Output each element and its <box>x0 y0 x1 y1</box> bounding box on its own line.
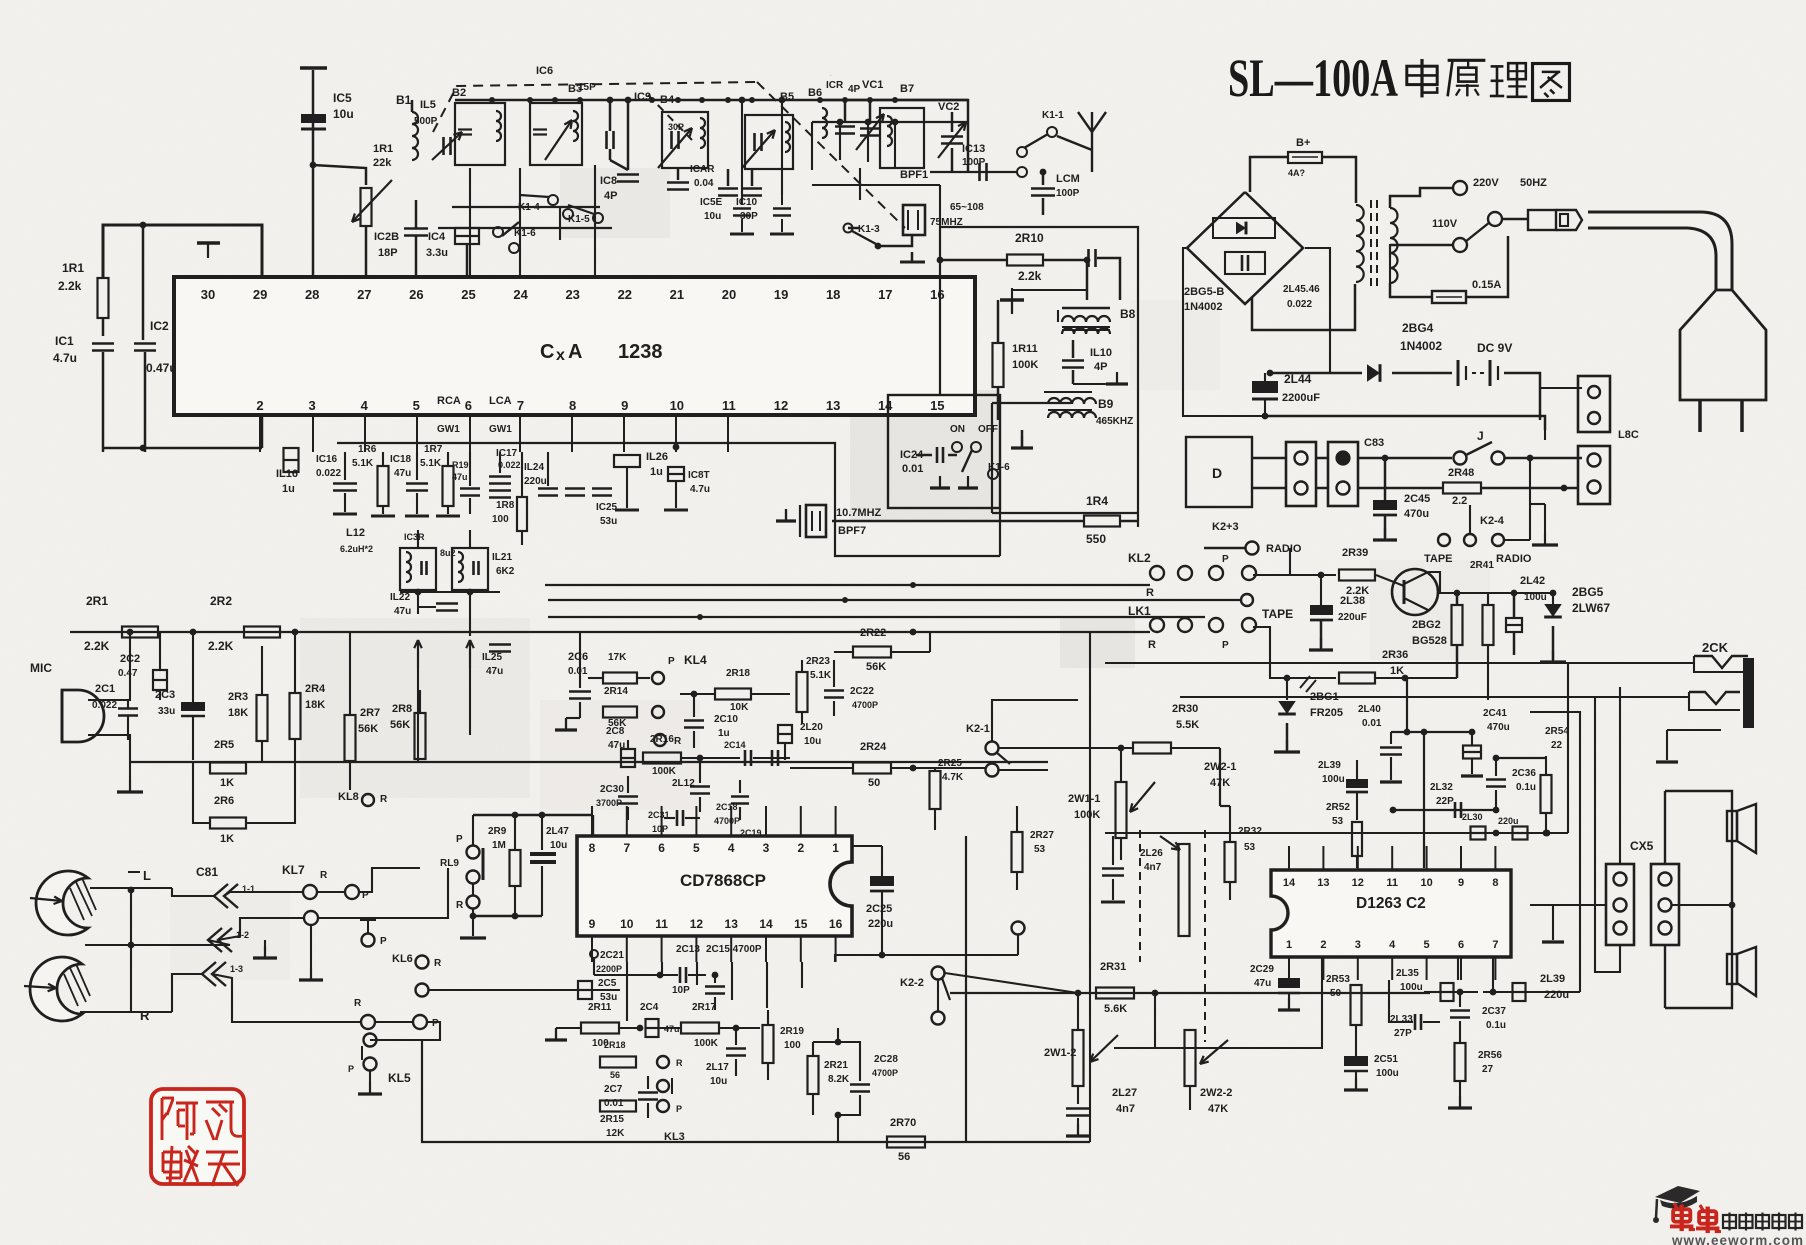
resistor 2R37 1K <box>1253 627 1336 678</box>
svg-text:R: R <box>320 870 328 881</box>
svg-text:L12: L12 <box>346 527 365 539</box>
svg-text:2C6: 2C6 <box>568 651 588 663</box>
scan blotch <box>170 890 290 980</box>
svg-text:C: C <box>540 341 554 363</box>
svg-text:2R9: 2R9 <box>488 826 507 837</box>
svg-text:ON: ON <box>950 424 965 435</box>
svg-text:100K: 100K <box>694 1038 719 1049</box>
svg-text:6.2uH*2: 6.2uH*2 <box>340 544 373 554</box>
svg-text:24: 24 <box>513 287 528 302</box>
svg-text:2C51: 2C51 <box>1374 1054 1398 1065</box>
svg-text:C81: C81 <box>196 865 218 879</box>
junction <box>817 97 823 103</box>
resistor 2R7 56K <box>345 715 356 761</box>
svg-text:2R19: 2R19 <box>780 1026 804 1037</box>
svg-text:2L20: 2L20 <box>800 722 823 733</box>
resistor 2R39 2.2K <box>1256 574 1336 576</box>
wire bridge top loop <box>1250 157 1288 192</box>
svg-text:33u: 33u <box>158 706 175 717</box>
tuned circuit B4 IC9 <box>662 112 708 168</box>
svg-text:IC6: IC6 <box>536 65 553 77</box>
svg-text:1R7: 1R7 <box>424 444 443 455</box>
scan blotch <box>560 168 670 238</box>
junction <box>577 97 583 103</box>
svg-text:9: 9 <box>1458 877 1464 889</box>
svg-text:2R8: 2R8 <box>392 703 412 715</box>
wire pin stub <box>695 806 697 836</box>
svg-text:5.5K: 5.5K <box>1176 719 1199 731</box>
wire <box>905 100 968 172</box>
svg-text:2R25: 2R25 <box>938 758 962 769</box>
capacitor IC2B 18P <box>404 227 428 230</box>
svg-text:P: P <box>1222 640 1229 651</box>
wire <box>1252 457 1286 460</box>
svg-text:1N4002: 1N4002 <box>1184 301 1223 313</box>
wire drop right <box>811 122 813 170</box>
svg-text:K1-3: K1-3 <box>858 224 880 235</box>
resistor 2R27 53 <box>1012 832 1023 872</box>
variable cap VC2 <box>941 135 963 138</box>
wire k2-2 riser <box>1089 632 1091 1142</box>
wire R channel <box>212 974 360 1022</box>
svg-text:9: 9 <box>589 917 596 931</box>
switch K1-4 <box>548 195 558 205</box>
capacitor 2C36b <box>1450 1009 1470 1012</box>
resistor 2R6 1K <box>210 818 246 829</box>
svg-text:B8: B8 <box>1120 307 1136 321</box>
svg-text:2200uF: 2200uF <box>1282 392 1320 404</box>
svg-text:IC8T: IC8T <box>688 470 710 481</box>
junction extra <box>910 582 916 588</box>
svg-text:B+: B+ <box>1296 137 1310 149</box>
capacitor IL25 47u <box>489 643 511 646</box>
svg-text:IC25: IC25 <box>596 502 618 513</box>
svg-text:LCA: LCA <box>489 395 512 407</box>
svg-text:2C1: 2C1 <box>95 683 115 695</box>
wire right riser <box>965 836 967 1142</box>
svg-text:2C10: 2C10 <box>714 714 738 725</box>
svg-text:2200P: 2200P <box>596 964 622 974</box>
tuned circuit B5 <box>745 115 793 169</box>
svg-text:0.1u: 0.1u <box>1516 782 1536 793</box>
capacitor 2L38 220uF <box>1320 575 1322 605</box>
junction <box>625 97 632 104</box>
resistor 2R8 56K <box>415 713 426 759</box>
svg-text:2CK: 2CK <box>1702 640 1729 655</box>
contact RL9 b <box>467 871 480 884</box>
svg-text:IC2B: IC2B <box>374 231 399 243</box>
terminal block E1 <box>1286 442 1316 506</box>
svg-text:47u: 47u <box>1254 978 1271 989</box>
svg-text:550: 550 <box>1086 532 1106 546</box>
svg-text:IL25: IL25 <box>482 652 502 663</box>
wire KL2 row <box>545 584 1150 586</box>
svg-text:3: 3 <box>308 398 315 413</box>
terminal block CX5a <box>1606 864 1634 945</box>
svg-text:R: R <box>380 794 388 805</box>
switch box <box>888 395 1000 508</box>
svg-text:47K: 47K <box>1208 1103 1228 1115</box>
svg-text:2.2k: 2.2k <box>1018 269 1042 283</box>
svg-text:1K: 1K <box>220 777 234 789</box>
svg-text:1-2: 1-2 <box>236 930 249 940</box>
wire long return <box>1265 416 1545 430</box>
contacts R P <box>361 1015 375 1029</box>
wire J row <box>1358 457 1452 460</box>
svg-text:OFF: OFF <box>978 424 998 435</box>
svg-text:2L39: 2L39 <box>1318 760 1341 771</box>
svg-text:2L27: 2L27 <box>1112 1087 1137 1099</box>
svg-text:18P: 18P <box>378 247 398 259</box>
svg-text:K1-5: K1-5 <box>568 214 590 225</box>
svg-text:1M: 1M <box>492 840 506 851</box>
svg-text:ICR: ICR <box>826 80 844 91</box>
svg-text:29: 29 <box>253 287 267 302</box>
svg-text:2L45.46: 2L45.46 <box>1283 284 1320 295</box>
svg-text:12: 12 <box>774 398 788 413</box>
wire mic top <box>88 632 130 700</box>
svg-text:L8C: L8C <box>1618 429 1639 441</box>
svg-text:IC13: IC13 <box>962 143 985 155</box>
svg-text:100u: 100u <box>1376 1068 1399 1079</box>
svg-text:IC4: IC4 <box>428 231 446 243</box>
svg-text:27: 27 <box>1482 1064 1494 1075</box>
svg-text:0.47u: 0.47u <box>146 361 177 375</box>
ground stub <box>1000 298 1024 301</box>
svg-text:R19: R19 <box>452 460 469 470</box>
switch K2-4 <box>1438 534 1450 546</box>
red seal stamp A-Fei-Min-Tian <box>151 1089 244 1186</box>
svg-text:14: 14 <box>1283 877 1296 889</box>
wire B7 bottom <box>812 184 940 186</box>
svg-text:220uF: 220uF <box>1338 612 1367 623</box>
svg-text:J: J <box>1477 429 1484 443</box>
wire pin stub <box>835 806 837 836</box>
svg-text:LK1: LK1 <box>1128 604 1151 618</box>
capacitor 2C22 4700P <box>824 689 844 692</box>
svg-text:IC16: IC16 <box>316 454 338 465</box>
svg-text:1u: 1u <box>650 466 663 478</box>
fuse 0.15A <box>1390 283 1432 297</box>
svg-text:1R1: 1R1 <box>62 261 84 275</box>
ground <box>1544 533 1546 545</box>
wire 758 net <box>1496 757 1547 759</box>
wire bridge bottom <box>1252 284 1355 330</box>
svg-text:2R54: 2R54 <box>1545 726 1569 737</box>
svg-text:R: R <box>1146 587 1154 599</box>
wire collector <box>1428 572 1514 593</box>
junction <box>552 97 558 103</box>
svg-text:P: P <box>1222 554 1229 565</box>
contact RL9 R <box>467 896 480 909</box>
wire KL7 L <box>224 892 302 896</box>
capacitor IC8 4P <box>617 173 639 176</box>
svg-text:2.2: 2.2 <box>1452 495 1467 507</box>
svg-text:BPF7: BPF7 <box>838 525 866 537</box>
wire <box>376 1039 422 1041</box>
svg-text:1: 1 <box>1286 939 1292 951</box>
contact <box>416 984 429 997</box>
resistor 2R17 100K <box>681 1023 719 1034</box>
resistor 2R13 17K <box>603 673 637 684</box>
scan blotch <box>1060 618 1135 668</box>
svg-text:2R39: 2R39 <box>1342 547 1368 559</box>
svg-text:IL10: IL10 <box>1090 347 1112 359</box>
svg-text:1R4: 1R4 <box>1086 494 1108 508</box>
junction <box>625 97 631 103</box>
wire <box>1220 805 1230 807</box>
svg-text:RADIO: RADIO <box>1266 543 1302 555</box>
svg-text:B6: B6 <box>808 87 822 99</box>
switch K2+3 RADIO <box>1246 542 1259 555</box>
crystal BPF7 10.7MHZ <box>799 505 801 537</box>
capacitor 2L44 2200uF <box>1252 381 1278 393</box>
capacitor IC10 30P <box>742 187 762 190</box>
svg-text:17: 17 <box>878 287 892 302</box>
svg-text:10P: 10P <box>672 985 690 996</box>
scan blotch <box>300 618 530 798</box>
svg-text:2: 2 <box>256 398 263 413</box>
svg-text:D: D <box>1212 465 1222 481</box>
arrow up a <box>417 640 419 668</box>
contact <box>657 1080 669 1092</box>
svg-text:2C22: 2C22 <box>850 686 874 697</box>
wire <box>1504 457 1582 460</box>
resistor 2R15 12K <box>600 1101 636 1112</box>
trimmer cap <box>442 137 445 155</box>
capacitor 2L20 10u <box>778 725 792 743</box>
ground <box>264 946 266 958</box>
svg-text:2L38: 2L38 <box>1340 595 1365 607</box>
head connector 1-1 <box>214 884 228 908</box>
svg-text:2C28: 2C28 <box>874 1054 898 1065</box>
capacitor IC13 100P <box>978 163 981 181</box>
zener 2BG5 2LW67 <box>1552 593 1554 605</box>
contact KL5b <box>364 1058 377 1071</box>
wire 2L44 to rail <box>1264 399 1266 416</box>
switch K1-5 <box>593 213 603 223</box>
capacitor IC24 0.01 <box>936 447 939 463</box>
svg-text:2C8: 2C8 <box>606 726 625 737</box>
IC U3 D1263-C2 body and pins <box>1271 870 1511 957</box>
wire <box>313 165 366 185</box>
svg-text:2L33: 2L33 <box>1390 1014 1413 1025</box>
head connector 1-3 <box>202 962 216 986</box>
switch K1-1 <box>1017 167 1027 177</box>
svg-text:B4: B4 <box>660 94 675 106</box>
svg-text:20: 20 <box>722 287 736 302</box>
svg-text:B3: B3 <box>568 83 582 95</box>
diode 2BG4 1N4002 <box>1367 364 1380 382</box>
svg-text:1u: 1u <box>718 728 730 739</box>
svg-text:5.1K: 5.1K <box>420 458 442 469</box>
svg-text:470u: 470u <box>1487 722 1510 733</box>
svg-text:2R15: 2R15 <box>600 1114 624 1125</box>
wire secondary mid <box>1389 245 1391 283</box>
tank L12 b <box>452 548 488 590</box>
wire pin5 <box>1457 957 1459 980</box>
svg-text:2R30: 2R30 <box>1172 703 1198 715</box>
svg-text:53u: 53u <box>600 516 617 527</box>
resistor 1R11 100K <box>993 343 1004 387</box>
bridge rectifier 2BG5-B <box>1187 192 1303 304</box>
svg-text:18: 18 <box>826 287 840 302</box>
svg-text:17K: 17K <box>608 652 627 663</box>
svg-text:2R18: 2R18 <box>604 1040 626 1050</box>
svg-text:465KHZ: 465KHZ <box>1096 416 1133 427</box>
wire bottom long bus <box>422 1040 1090 1142</box>
capacitor IC25 53u <box>565 487 585 490</box>
eeworm watermark <box>1653 1186 1803 1245</box>
wire drop <box>859 168 861 200</box>
terminal block CX5b <box>1651 864 1679 945</box>
wire LK1 row <box>70 631 1150 633</box>
capacitor IL16 1u <box>284 448 299 472</box>
wire row3 <box>548 616 1205 618</box>
svg-text:8: 8 <box>589 841 596 855</box>
svg-text:IL5: IL5 <box>420 99 436 111</box>
svg-text:KL5: KL5 <box>388 1071 411 1085</box>
inductor IL26 1u <box>614 455 640 467</box>
svg-text:10: 10 <box>670 398 684 413</box>
svg-text:2BG5: 2BG5 <box>1572 585 1604 599</box>
wire <box>1086 260 1089 300</box>
svg-text:1K: 1K <box>1390 665 1404 677</box>
wire KL5 chain <box>370 1022 440 1040</box>
svg-text:0.04: 0.04 <box>694 178 714 189</box>
svg-text:3.3u: 3.3u <box>426 247 448 259</box>
svg-text:2BG4: 2BG4 <box>1402 321 1434 335</box>
svg-text:220u: 220u <box>524 476 547 487</box>
svg-text:2BG2: 2BG2 <box>1412 619 1441 631</box>
wire DC rail <box>1270 372 1362 375</box>
transformer B9 <box>1048 398 1096 404</box>
terminal 110V <box>1453 238 1467 252</box>
capacitor 2L36 220u <box>1513 827 1528 840</box>
ground mic <box>129 780 131 792</box>
svg-text:220V: 220V <box>1473 177 1499 189</box>
svg-text:27P: 27P <box>1394 1028 1412 1039</box>
wire <box>102 318 105 336</box>
capacitor LCM 100P <box>1042 172 1045 185</box>
svg-text:R: R <box>1148 639 1156 651</box>
svg-text:2L35: 2L35 <box>1396 968 1419 979</box>
resistor 2R48 2.2 <box>1358 487 1444 490</box>
svg-text:www.eeworm.com: www.eeworm.com <box>1671 1233 1803 1245</box>
svg-text:4n7: 4n7 <box>1144 862 1162 873</box>
svg-text:110V: 110V <box>1432 218 1458 230</box>
wire pin drop <box>312 415 314 452</box>
wire pin stub <box>591 806 593 836</box>
svg-text:2R23: 2R23 <box>806 656 830 667</box>
transformer T1 secondary <box>1390 208 1398 283</box>
svg-text:2R56: 2R56 <box>1478 1050 1502 1061</box>
battery cells <box>1457 360 1460 386</box>
tape head R <box>30 957 82 1021</box>
resistor 2R32 53 <box>1225 842 1236 882</box>
svg-text:2R5: 2R5 <box>214 739 234 751</box>
svg-text:P: P <box>432 1018 439 1029</box>
svg-text:56K: 56K <box>358 723 378 735</box>
wire <box>610 160 628 170</box>
resistor 2R25 4.7K <box>930 771 941 809</box>
resistor 2R53 50 <box>1351 985 1362 1025</box>
svg-text:IC18: IC18 <box>390 454 412 465</box>
svg-text:0.1u: 0.1u <box>1486 1020 1506 1031</box>
svg-text:2: 2 <box>797 841 804 855</box>
capacitor 2C45 470u <box>1384 458 1387 500</box>
contact <box>304 911 318 925</box>
capacitor IC5E 10u <box>718 187 738 190</box>
svg-text:0.022: 0.022 <box>1287 299 1312 310</box>
wire resonator net <box>848 227 860 230</box>
svg-text:100u: 100u <box>1400 982 1423 993</box>
svg-text:1R11: 1R11 <box>1012 343 1038 355</box>
svg-text:8: 8 <box>1492 877 1498 889</box>
svg-text:CD7868CP: CD7868CP <box>680 871 766 890</box>
wire <box>261 415 264 448</box>
svg-text:B9: B9 <box>1098 397 1114 411</box>
arrow up b <box>469 640 471 668</box>
svg-text:2BG5-B: 2BG5-B <box>1184 286 1224 298</box>
svg-text:2C30: 2C30 <box>600 784 624 795</box>
ground <box>369 1082 371 1094</box>
svg-text:50: 50 <box>1330 988 1342 999</box>
resistor 2R56 27 <box>1455 1043 1466 1081</box>
wire tuner bus <box>455 99 905 101</box>
resistor 1R1 2.2k <box>98 278 109 318</box>
scan blotch <box>540 700 700 810</box>
svg-text:50HZ: 50HZ <box>1520 177 1547 189</box>
svg-text:30P: 30P <box>668 122 684 132</box>
resistor 2R9 1M <box>510 850 521 886</box>
svg-text:0.022: 0.022 <box>316 468 341 479</box>
svg-text:P: P <box>456 834 463 845</box>
resistor 2R5 1K <box>210 763 246 774</box>
svg-text:IC9: IC9 <box>634 91 651 103</box>
svg-text:IL24: IL24 <box>524 462 544 473</box>
wire head wiring <box>90 888 131 1012</box>
resistor 1R8 100 <box>517 497 527 531</box>
svg-text:10: 10 <box>1420 877 1432 889</box>
svg-text:6: 6 <box>658 841 665 855</box>
wire pin28 riser <box>312 70 315 277</box>
svg-text:2W1-2: 2W1-2 <box>1044 1047 1076 1059</box>
terminal block DC out <box>1578 376 1610 432</box>
resistor 1R7 5.1K <box>443 466 454 506</box>
svg-text:K2+3: K2+3 <box>1212 521 1239 533</box>
wire pin drop <box>469 415 471 452</box>
terminal T-bar <box>300 66 327 69</box>
wire drop <box>741 100 743 195</box>
resistor 2R31 5.6K <box>1096 988 1134 999</box>
wire 810 net <box>1393 809 1496 811</box>
svg-text:2R41: 2R41 <box>1470 560 1494 571</box>
svg-text:1R1: 1R1 <box>373 143 393 155</box>
svg-text:K2-1: K2-1 <box>966 723 990 735</box>
svg-text:2R4: 2R4 <box>305 683 326 695</box>
svg-text:KL6: KL6 <box>392 953 413 965</box>
svg-text:18K: 18K <box>228 707 248 719</box>
svg-text:C83: C83 <box>1364 437 1384 449</box>
svg-text:1R8: 1R8 <box>496 500 515 511</box>
svg-text:P: P <box>380 936 387 947</box>
svg-text:DC 9V: DC 9V <box>1477 341 1512 355</box>
resistor 2R52 53 <box>1352 822 1362 856</box>
svg-text:2R11: 2R11 <box>588 1002 612 1013</box>
inductor B6 <box>822 108 827 138</box>
svg-text:2C29: 2C29 <box>1250 964 1274 975</box>
